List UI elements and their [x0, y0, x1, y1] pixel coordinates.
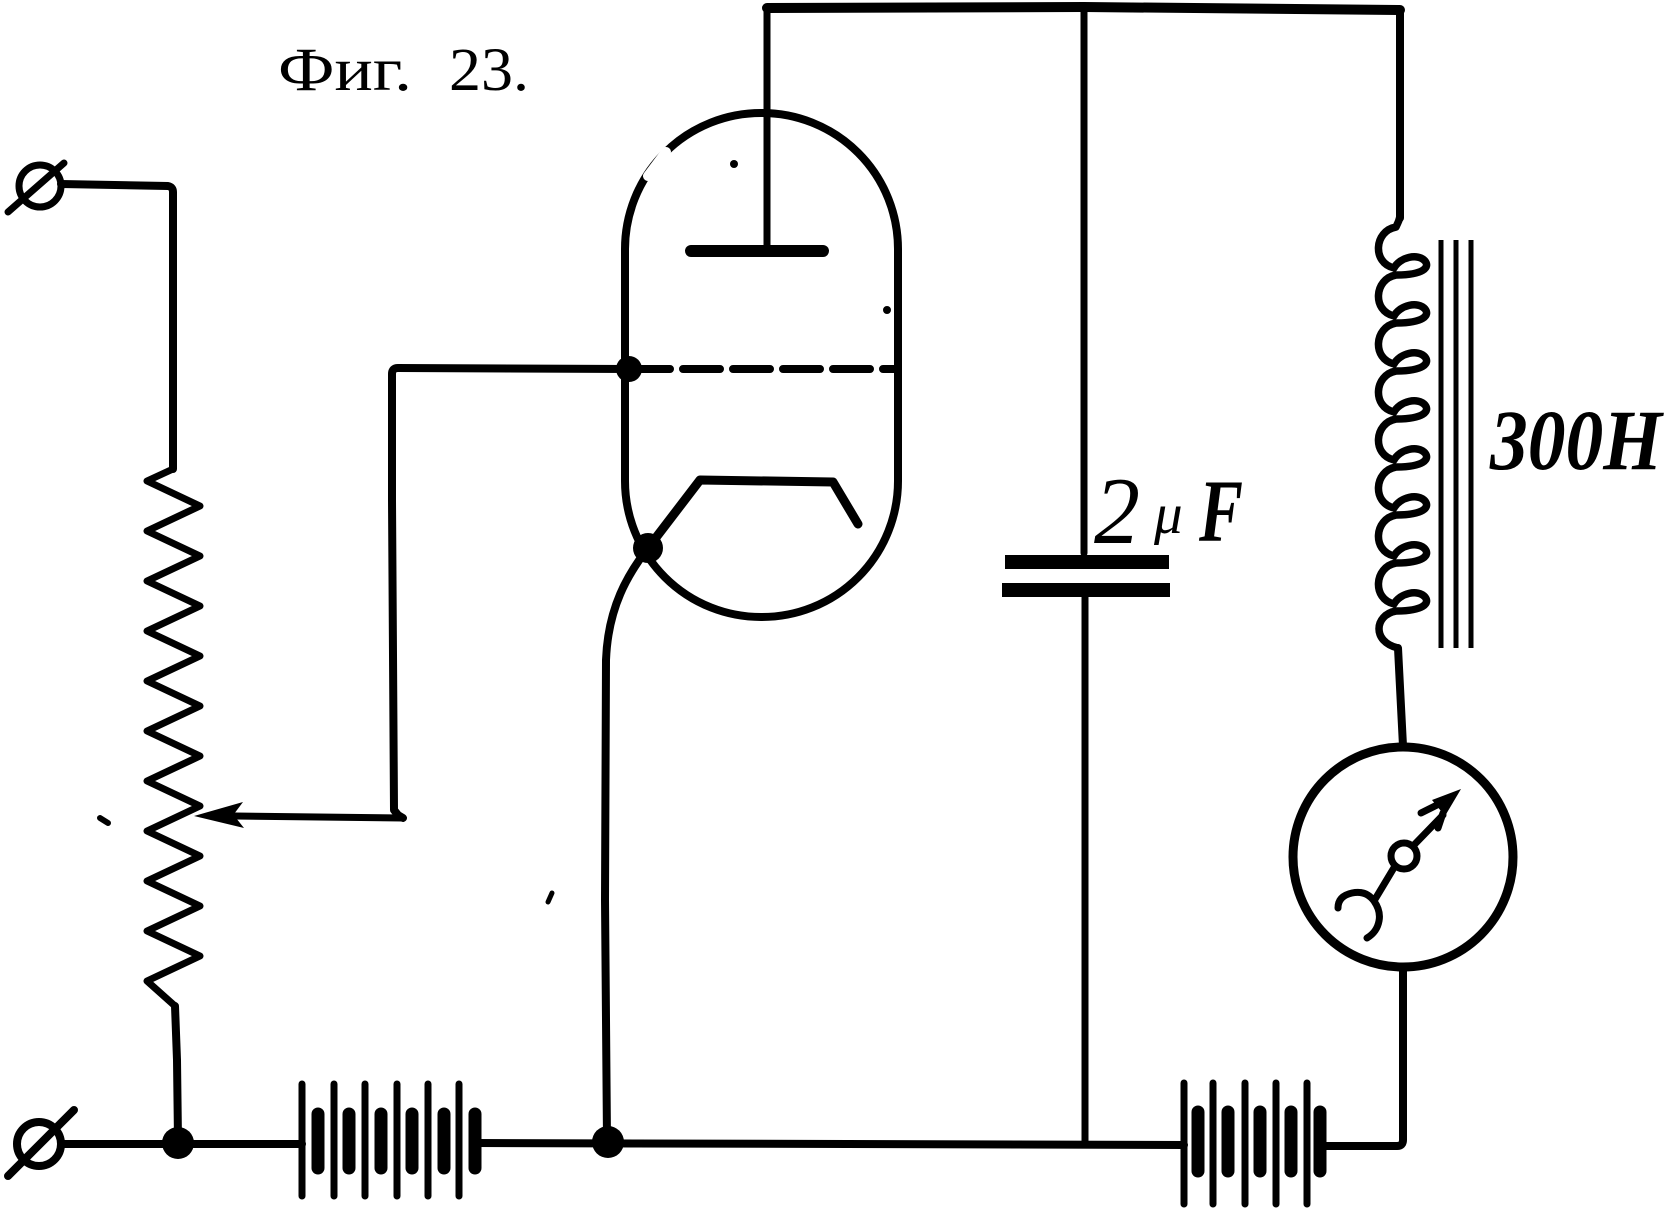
input terminal top-left: [8, 163, 64, 212]
wire: capacitor bottom lead: [1082, 597, 1089, 1144]
svg-text:2: 2: [1094, 458, 1140, 564]
svg-text:300H: 300H: [1489, 392, 1665, 488]
bottom wire: battery B1 to battery B2: [475, 1143, 1184, 1145]
anode plate bar: [691, 245, 823, 257]
meter hub: [1391, 843, 1417, 869]
stray speck 3 (dot in tube): [730, 160, 738, 168]
wire: choke to meter: [1398, 648, 1403, 746]
svg-text:F: F: [1198, 463, 1243, 561]
envelope gap (hand-drawn break): [648, 152, 666, 176]
bottom wire: terminal to battery B1: [61, 1140, 302, 1148]
capacitor C (2 uF) plates: [1002, 562, 1170, 590]
anode lead from top wire: [764, 8, 771, 247]
node: grid junction dot: [616, 356, 642, 382]
wire: cathode lead down to bottom wire: [605, 548, 648, 1140]
node: cathode junction dot on bottom wire: [592, 1126, 624, 1158]
wire: wiper up and right to grid: [392, 368, 629, 818]
figure caption "Фиг. 23.": [278, 37, 529, 104]
battery B1 plates: [302, 1084, 475, 1196]
wiper arrow of potentiometer: [194, 802, 403, 828]
wire: top terminal to potentiometer top: [61, 184, 173, 469]
wire: top rail down to choke: [1396, 10, 1404, 218]
node: bottom-left junction dot: [162, 1127, 194, 1159]
battery B2 plates: [1184, 1083, 1320, 1204]
inductor core (3 lines): [1441, 240, 1471, 648]
meter M (circle): [1293, 747, 1513, 967]
label "2 uF": [1094, 458, 1243, 564]
stray speck 1: [100, 818, 108, 823]
svg-text:Фиг.: Фиг.: [278, 37, 412, 104]
input terminal bottom-left: [8, 1110, 74, 1176]
grid (dashed line): [633, 365, 896, 373]
node: filament/cathode junction dot: [633, 533, 663, 563]
wire: potentiometer bottom to bottom junction: [175, 1006, 178, 1140]
stray speck 4 (dot right of tube): [883, 306, 891, 314]
resistor (potentiometer) zigzag: [147, 469, 200, 1006]
svg-text:μ: μ: [1153, 483, 1183, 546]
svg-text:23.: 23.: [449, 37, 529, 104]
wire: capacitor top lead: [1081, 7, 1088, 553]
tube envelope (triode): [625, 113, 898, 617]
meter needle tail with hook: [1338, 866, 1395, 938]
inductor L (choke) winding: [1378, 214, 1426, 648]
meter needle arrowhead: [1432, 789, 1461, 816]
wire: meter to battery B2: [1322, 968, 1403, 1146]
top wire (anode supply rail): [767, 7, 1400, 10]
meter needle: [1413, 815, 1443, 846]
filament: [648, 480, 858, 548]
stray speck 2: [548, 893, 552, 902]
